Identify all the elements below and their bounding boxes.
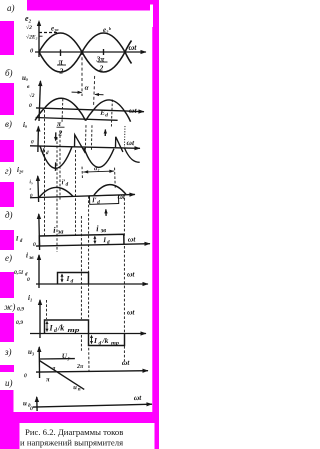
svg-text:и напряжений выпрямителя: и напряжений выпрямителя	[20, 438, 123, 448]
svg-text:ωt: ωt	[128, 234, 137, 243]
svg-text:ωt: ωt	[129, 106, 138, 115]
svg-text:ωt: ωt	[126, 138, 135, 147]
svg-text:√2: √2	[29, 92, 35, 99]
svg-text:i: i	[26, 252, 28, 260]
svg-text:π: π	[52, 365, 55, 371]
svg-text:√2E₂: √2E₂	[26, 34, 38, 41]
svg-text:α₂: α₂	[94, 166, 100, 172]
svg-text:3π: 3π	[96, 55, 106, 64]
svg-text:0: 0	[27, 277, 30, 283]
svg-text:ωt: ωt	[134, 393, 143, 402]
svg-text:0: 0	[29, 103, 32, 109]
svg-text:e₂: e₂	[25, 14, 32, 23]
svg-text:0,9: 0,9	[17, 307, 24, 313]
svg-text:u₃: u₃	[28, 348, 35, 356]
svg-text:iₐ: iₐ	[23, 121, 27, 129]
svg-text:ж): ж)	[4, 302, 15, 312]
svg-text:2: 2	[59, 67, 64, 76]
svg-text:I: I	[102, 236, 106, 244]
svg-text:u: u	[23, 399, 27, 407]
svg-text:0,9: 0,9	[16, 320, 23, 326]
svg-text:Рис. 6.2. Диаграммы токов: Рис. 6.2. Диаграммы токов	[25, 427, 123, 437]
svg-text:i₂ₐ: i₂ₐ	[17, 166, 23, 174]
svg-text:зв: зв	[28, 255, 34, 261]
svg-text:0: 0	[33, 242, 36, 248]
svg-text:d: d	[71, 279, 74, 285]
svg-text:г): г)	[5, 166, 12, 176]
svg-text:зв: зв	[100, 227, 107, 234]
svg-text:I′: I′	[91, 196, 97, 204]
svg-text:д): д)	[5, 210, 13, 220]
svg-text:d: d	[54, 328, 57, 334]
svg-text:2: 2	[99, 64, 104, 73]
svg-text:/k: /k	[57, 324, 64, 333]
svg-text:2π: 2π	[76, 364, 84, 370]
svg-text:e₂ₐ: e₂ₐ	[51, 25, 59, 33]
svg-text:α: α	[85, 84, 89, 92]
svg-text:ωt: ωt	[122, 358, 131, 367]
svg-text:e₂ᵇ: e₂ᵇ	[103, 26, 112, 34]
svg-text:п: п	[78, 386, 81, 392]
svg-text:в): в)	[5, 119, 12, 129]
svg-text:uₐ: uₐ	[22, 74, 28, 82]
svg-text:d: d	[99, 341, 102, 347]
svg-text:0,5I: 0,5I	[14, 270, 24, 276]
svg-text:тр: тр	[68, 328, 80, 334]
svg-text:е): е)	[5, 253, 12, 263]
svg-text:за: за	[57, 228, 65, 235]
svg-text:а): а)	[7, 3, 15, 13]
svg-text:тр: тр	[111, 341, 119, 347]
svg-text:√2: √2	[26, 24, 32, 31]
svg-text:ωt: ωt	[127, 308, 135, 317]
svg-text:u: u	[73, 384, 77, 391]
svg-text:2: 2	[58, 128, 63, 137]
svg-text:0: 0	[30, 406, 33, 412]
svg-text:и): и)	[5, 378, 13, 388]
svg-text:π: π	[59, 58, 64, 67]
svg-text:ωt: ωt	[129, 43, 138, 52]
svg-text:ωt: ωt	[127, 270, 135, 279]
svg-text:π: π	[46, 376, 50, 383]
svg-text:б): б)	[5, 68, 13, 78]
svg-text:i₁: i₁	[28, 294, 32, 302]
svg-text:з): з)	[4, 347, 12, 357]
svg-text:/k: /k	[102, 336, 109, 345]
svg-text:I: I	[15, 235, 19, 242]
svg-text:0: 0	[24, 373, 27, 379]
